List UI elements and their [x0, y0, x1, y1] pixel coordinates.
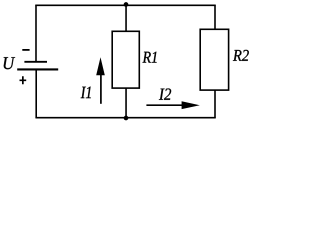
battery U: short plate (negative)	[24, 61, 47, 63]
wire: middle branch from top dot down to R1	[125, 5, 127, 32]
resistor R2 (rectangle body)	[200, 29, 228, 90]
wire: middle branch from R1 down to bottom dot	[125, 88, 127, 119]
label I2	[159, 89, 171, 100]
wire: top wire from battery top to top-right corner	[35, 4, 216, 6]
node: top junction dot	[124, 2, 129, 7]
battery U: long plate (positive)	[17, 68, 58, 70]
wire: bottom wire	[35, 117, 215, 119]
current arrow I2 (right, on bottom region between R1 and R2)	[146, 101, 199, 109]
label R1	[143, 52, 157, 63]
current arrow I1 (up, left of R1)	[96, 57, 105, 104]
wire: left side lower (battery bottom lead)	[35, 69, 37, 118]
label U	[4, 57, 15, 69]
wire: right side upper (top wire down to R2)	[214, 5, 216, 30]
resistor R1 (rectangle body)	[112, 31, 139, 88]
label I1	[81, 87, 91, 99]
battery plus sign	[20, 76, 27, 84]
node: bottom junction dot	[124, 116, 129, 121]
wire: right side lower (R2 down to bottom wire)	[214, 90, 216, 118]
label R2	[233, 50, 249, 61]
battery minus sign	[22, 49, 29, 51]
wire: left side upper (battery top lead)	[35, 5, 37, 62]
